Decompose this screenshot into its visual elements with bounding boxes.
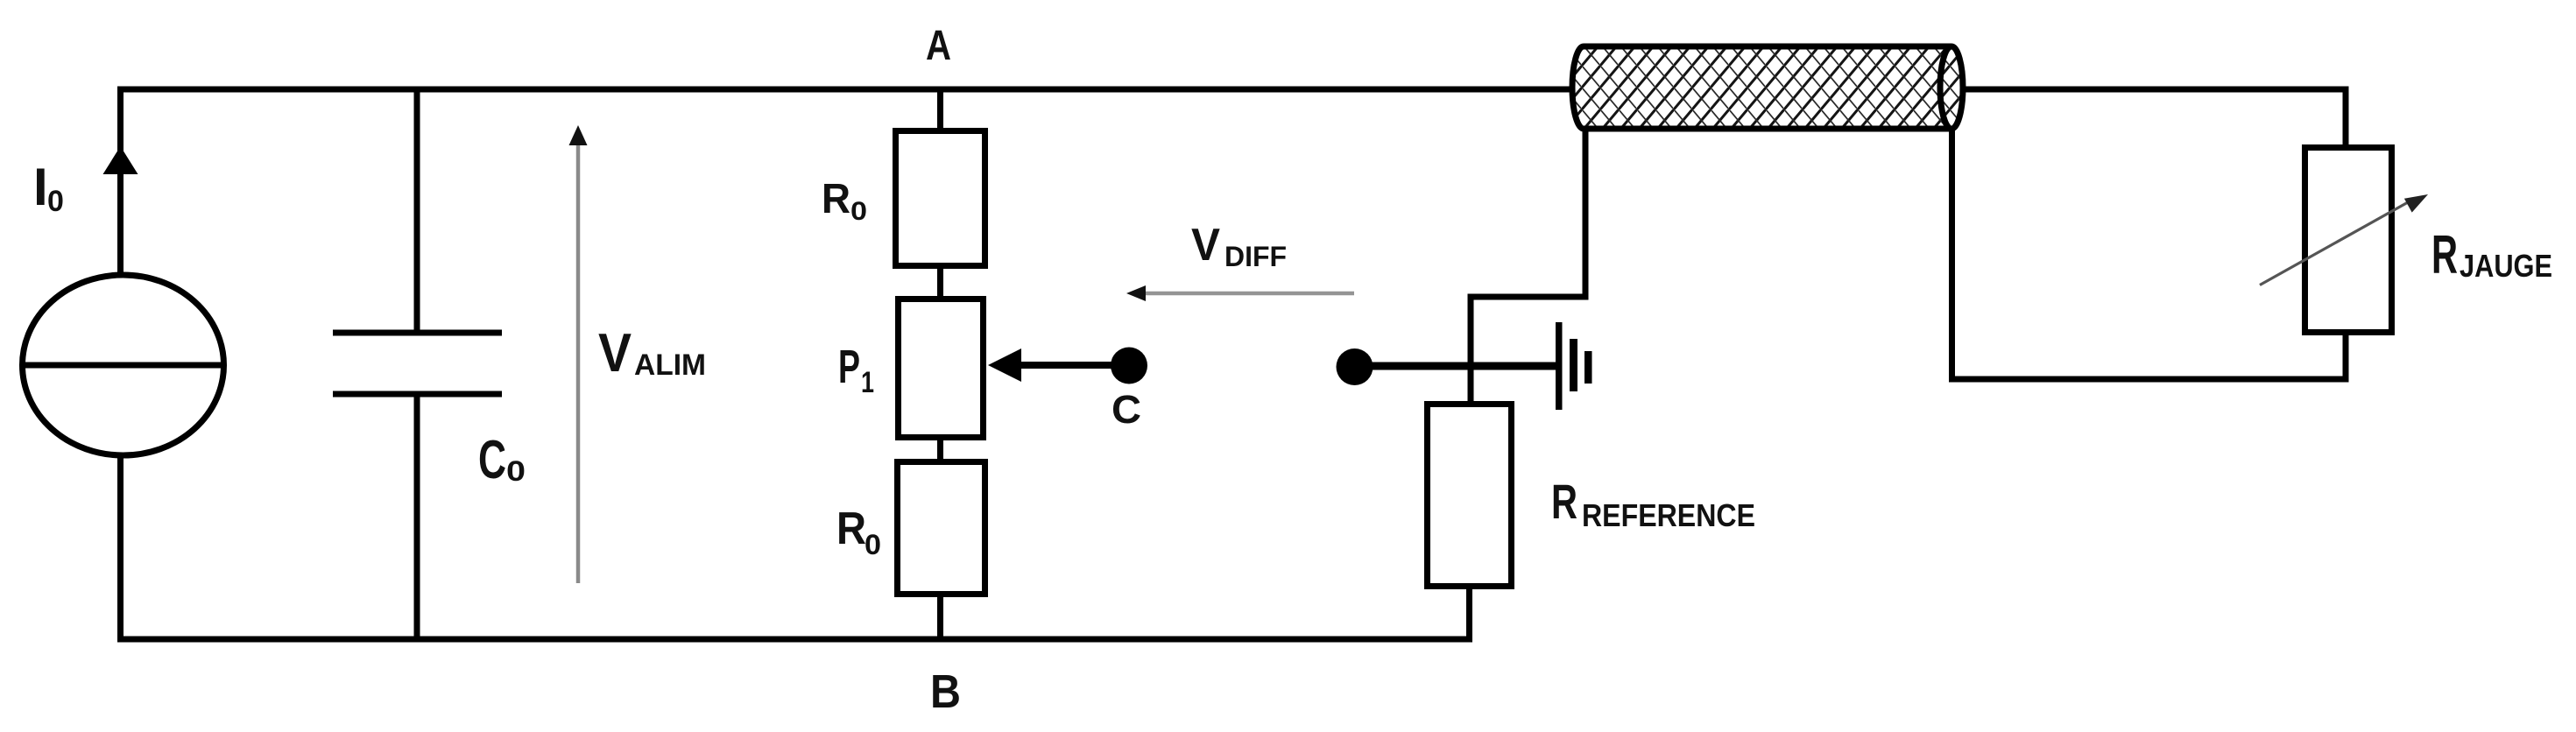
wire bottom right horizontal [1949, 377, 2349, 383]
svg-text:C: C [478, 430, 506, 490]
wire left vertical from top corner to current source [117, 87, 124, 275]
wire vertical below cable right end [1949, 130, 1955, 383]
svg-text:R: R [1551, 474, 1577, 529]
svg-text:REFERENCE: REFERENCE [1582, 497, 1755, 533]
V_DIFF arrow line [1144, 292, 1354, 296]
current source diameter line [23, 362, 224, 369]
wire node A stub [937, 89, 943, 130]
ground bar 2 [1570, 339, 1577, 391]
wire capacitor bottom stub [414, 394, 420, 639]
svg-text:0: 0 [47, 185, 64, 218]
svg-text:V: V [598, 323, 632, 384]
current source U1 circle [23, 275, 224, 455]
V_DIFF arrowhead [1126, 285, 1146, 301]
wire elbow horizontal [1468, 294, 1589, 300]
svg-text:JAUGE: JAUGE [2460, 248, 2552, 284]
node C dot [1111, 348, 1147, 384]
svg-text:B: B [930, 665, 961, 718]
svg-text:0: 0 [850, 197, 867, 226]
wire dot to ground [1354, 362, 1556, 370]
potentiometer P1 box [899, 299, 984, 438]
wiper arrow line from node C [1018, 362, 1128, 369]
svg-text:0: 0 [506, 455, 526, 487]
wire vertical feed to R_REFERENCE [1468, 294, 1474, 405]
resistor R_REFERENCE box [1428, 405, 1512, 587]
R_JAUGE variable arrow line [2260, 202, 2409, 285]
wire capacitor top stub [414, 89, 420, 333]
ground bar 3 [1584, 351, 1592, 384]
R_JAUGE arrowhead [2404, 194, 2428, 213]
wire top horizontal from left corner to cable [117, 87, 1571, 93]
wire stub R_REFERENCE to bottom wire [1466, 586, 1472, 639]
wire stub R0-B [937, 594, 943, 639]
wire bottom horizontal [117, 637, 1472, 643]
capacitor C0 bottom plate [333, 391, 502, 398]
wire below current source [117, 455, 124, 643]
capacitor C0 top plate [333, 330, 502, 336]
resistor R_JAUGE box [2305, 148, 2392, 333]
cable shield outline [1572, 46, 1951, 129]
svg-text:I: I [33, 158, 48, 216]
wire stub R0-P1 [937, 265, 943, 299]
resistor R0 top box [896, 131, 985, 266]
svg-text:1: 1 [861, 366, 874, 399]
cable shield hatch fill [1572, 46, 1963, 129]
wire cable to gauge top [1963, 87, 2349, 93]
svg-text:0: 0 [865, 529, 881, 560]
wire vertical up to cable shield [1583, 130, 1589, 297]
svg-text:V: V [1191, 220, 1220, 271]
wire down to R_JAUGE [2343, 89, 2349, 148]
V_ALIM arrowhead [569, 125, 588, 145]
svg-text:A: A [926, 23, 951, 69]
svg-text:R: R [2431, 225, 2458, 285]
resistor R0 bottom box [898, 462, 985, 595]
svg-text:C: C [1112, 387, 1141, 432]
wiper arrowhead [988, 348, 1021, 382]
svg-text:DIFF: DIFF [1224, 241, 1287, 272]
cable shield right end ellipse [1940, 46, 1963, 129]
arrowhead I0 up [103, 146, 138, 174]
node dot right probe [1337, 348, 1373, 385]
svg-text:R: R [822, 176, 850, 222]
wire stub P1-R0 [937, 437, 943, 462]
svg-text:P: P [838, 341, 860, 393]
V_ALIM arrow line [576, 140, 581, 583]
wire stub R_JAUGE bottom [2343, 332, 2349, 383]
svg-text:R: R [836, 503, 866, 554]
ground bar 1 [1556, 322, 1563, 410]
svg-text:ALIM: ALIM [634, 348, 706, 382]
